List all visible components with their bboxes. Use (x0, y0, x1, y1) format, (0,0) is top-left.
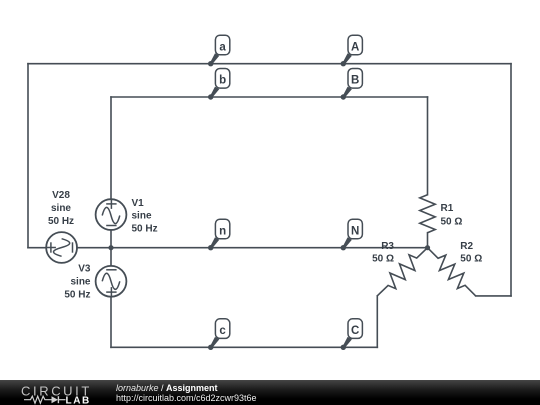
wire V3 to c-line (110, 297, 112, 347)
resistor R1 (420, 195, 435, 233)
label V3 (64, 264, 91, 301)
node junction dot R-star (425, 245, 430, 250)
wire c-line horizontal (111, 346, 377, 348)
svg-text:50 Hz: 50 Hz (48, 216, 74, 227)
node c flag (208, 319, 230, 350)
wire V1 to node n (110, 230, 112, 266)
svg-text:50 Ω: 50 Ω (372, 253, 394, 264)
svg-text:c: c (219, 325, 226, 337)
svg-text:N: N (351, 225, 359, 237)
wire right rail (510, 64, 512, 296)
node B flag (341, 69, 363, 100)
svg-text:R3: R3 (381, 241, 394, 252)
voltage source V3 (96, 266, 127, 297)
node b flag (208, 69, 230, 100)
svg-text:LAB: LAB (66, 396, 91, 405)
svg-text:50 Ω: 50 Ω (460, 253, 482, 264)
svg-text:50 Ω: 50 Ω (441, 217, 463, 228)
node n flag (208, 219, 230, 250)
svg-text:50 Hz: 50 Hz (132, 223, 158, 234)
footer bar (0, 380, 540, 405)
wire a-line top horizontal (28, 63, 511, 65)
svg-text:n: n (219, 225, 226, 237)
svg-text:A: A (351, 41, 359, 53)
svg-text:B: B (351, 75, 359, 87)
resistor R3 (377, 248, 427, 296)
wire R2 bottom horizontal (476, 295, 511, 297)
voltage source V1 (96, 199, 127, 230)
svg-text:V28: V28 (52, 190, 70, 201)
wire R3 bottom vertical (376, 296, 378, 348)
label R3 value (372, 241, 394, 264)
svg-text:C: C (351, 325, 359, 337)
svg-text:sine: sine (51, 203, 71, 214)
CircuitLab logo (14, 380, 104, 405)
svg-text:a: a (219, 41, 226, 53)
label V28 (48, 190, 74, 227)
resistor R2 (428, 248, 476, 296)
wire R1 bottom lead (427, 233, 429, 248)
label V1 (132, 198, 158, 235)
wire b drop to V1 (110, 97, 112, 199)
svg-text:b: b (219, 75, 226, 87)
svg-text:50 Hz: 50 Hz (64, 290, 90, 301)
svg-text:V3: V3 (78, 264, 91, 275)
wire n-line horizontal (77, 247, 428, 249)
node a flag (208, 35, 230, 66)
node junction dot n-center (108, 245, 113, 250)
svg-text:R2: R2 (460, 241, 473, 252)
svg-text:R1: R1 (441, 203, 454, 214)
label R2 value (460, 241, 482, 264)
label R1 value (441, 203, 463, 228)
voltage source V28 (46, 232, 77, 263)
svg-text:sine: sine (132, 211, 152, 222)
node A flag (341, 35, 363, 66)
wire left rail (27, 64, 29, 248)
node N flag (341, 219, 363, 250)
wire b-line horizontal (111, 96, 428, 98)
node C flag (341, 319, 363, 350)
svg-text:sine: sine (70, 276, 90, 287)
wire V28 left lead (28, 247, 46, 249)
svg-text:V1: V1 (132, 198, 145, 209)
wire R1 drop from b-line (427, 97, 429, 195)
